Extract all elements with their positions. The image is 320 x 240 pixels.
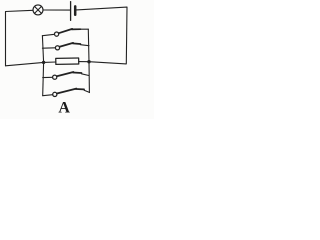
svg-text:A: A — [58, 99, 70, 116]
